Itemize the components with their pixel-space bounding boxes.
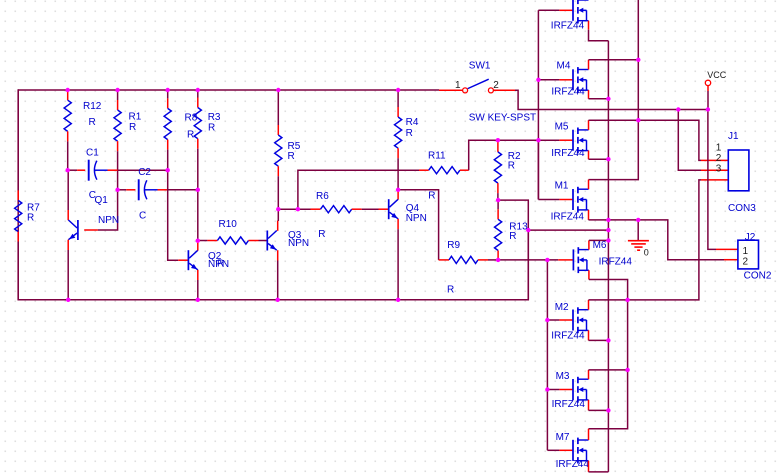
label M1 (555, 181, 569, 192)
label R5 value R (288, 151, 295, 162)
wire M7 source to bus (589, 471, 609, 473)
label CON2 (744, 270, 772, 281)
resistor R3 (194, 90, 201, 241)
wire M8 source to bus (589, 30, 609, 41)
svg-text:2: 2 (743, 256, 749, 267)
resistor R11 (429, 167, 460, 174)
pin C1 right red (108, 169, 118, 171)
svg-text:R: R (318, 229, 325, 240)
label R11 value R (428, 191, 435, 202)
wire Q3 emitter down (277, 261, 279, 300)
wire M1 gate (537, 140, 539, 199)
wire VCC down (707, 91, 709, 110)
pin M7 drain red (588, 429, 590, 440)
label C2 value C (139, 210, 146, 221)
pin R9 right red (478, 259, 488, 261)
wire Q3 collector up (277, 209, 279, 221)
svg-text:SW1: SW1 (469, 61, 491, 72)
label R3 (208, 112, 221, 123)
wire SW1 to VCC row (515, 90, 708, 109)
label M4 (557, 60, 571, 71)
pin R6 left red (311, 208, 321, 210)
label SW1 (469, 61, 491, 72)
wire M2 drain to J1 pin3 (589, 180, 702, 300)
svg-text:2: 2 (716, 153, 722, 164)
svg-text:R: R (187, 130, 194, 141)
wire SW1 pin2 red (493, 89, 515, 91)
svg-text:M6: M6 (593, 240, 607, 251)
pin M5 drain red (588, 120, 590, 130)
wire source bus x608 (607, 41, 609, 472)
wire M3 gate stub (547, 389, 573, 391)
label Q1 (95, 195, 109, 206)
svg-text:IRFZ44: IRFZ44 (551, 148, 585, 159)
svg-text:1: 1 (455, 80, 461, 91)
wire M6 drain to bus (589, 239, 609, 241)
pin M6 source red (588, 270, 590, 279)
resistor R2 (494, 140, 501, 200)
pin Q3 collector red (277, 221, 279, 231)
pin M1 drain red (588, 180, 590, 190)
wire M7 gate stub (547, 449, 573, 451)
resistor R8 (164, 90, 171, 170)
svg-text:NPN: NPN (98, 215, 119, 226)
wire R10 left (198, 240, 208, 242)
label M3 (556, 371, 570, 382)
mosfet M7 (573, 438, 589, 464)
svg-text:R: R (208, 123, 215, 134)
pin Q2 base red (178, 259, 188, 261)
pin Q4 base red (379, 208, 389, 210)
label Q3 NPN (288, 238, 309, 249)
label Q2 NPN (208, 259, 229, 270)
pin R10 left red (207, 240, 217, 242)
label R2 value R (508, 160, 515, 171)
pin M6 gate red (558, 259, 573, 261)
pin M3 drain red (588, 370, 590, 379)
wire M3 drain to bus x628 (589, 369, 628, 371)
pin Q1 emitter red (67, 240, 69, 250)
wire M6 source down bus x628 (589, 280, 628, 429)
label M7 (556, 432, 570, 443)
svg-text:M1: M1 (555, 181, 569, 192)
label M5 (555, 122, 569, 133)
wire Q1 base to R1 column (98, 190, 118, 230)
svg-text:SW KEY-SPST: SW KEY-SPST (469, 113, 536, 124)
label R1 value R (129, 122, 136, 133)
mosfet M3 (573, 377, 589, 403)
label R9 value R (447, 285, 454, 296)
label R10 (219, 219, 238, 230)
label M5 IRFZ44 (551, 148, 585, 159)
label Q1 NPN (98, 215, 119, 226)
svg-text:C: C (139, 210, 146, 221)
pin M3 source red (588, 400, 590, 411)
switch SW1 pin 2 number (493, 80, 499, 91)
pin M2 source red (588, 330, 590, 340)
svg-text:R6: R6 (316, 191, 329, 202)
wire M5 gate (538, 139, 573, 141)
svg-text:NPN: NPN (288, 238, 309, 249)
label R2 (508, 151, 521, 162)
label SW KEY-SPST (469, 113, 536, 124)
wire R10 right (259, 240, 268, 242)
svg-text:R: R (27, 213, 34, 224)
svg-text:IRFZ44: IRFZ44 (551, 211, 585, 222)
wire drain bus x638 (589, 0, 639, 180)
transistor Q1 (68, 220, 78, 240)
switch SW1 lever (468, 79, 489, 88)
svg-text:IRFZ44: IRFZ44 (551, 21, 585, 32)
svg-text:NPN: NPN (406, 213, 427, 224)
label R10 value R (217, 259, 224, 270)
switch SW1 pin 1 circle (463, 88, 468, 93)
label R11 (428, 150, 446, 161)
pin VCC red (707, 86, 709, 91)
label C1 (86, 148, 99, 159)
svg-text:R1: R1 (129, 112, 142, 123)
pin J2 pin1 red (716, 248, 738, 250)
mosfet M1 (573, 187, 589, 213)
pin M8 source red (588, 21, 590, 30)
pin M4 source red (588, 90, 590, 99)
wire M2 gate stub (547, 319, 573, 321)
label J1 (728, 131, 739, 142)
pin J1 pin3 red (701, 179, 728, 181)
resistor R9 (449, 256, 478, 263)
svg-text:R8: R8 (185, 113, 198, 124)
wire R6 left (278, 208, 310, 210)
wire M1 source to J2 pin2 (589, 220, 725, 260)
svg-text:R: R (428, 191, 435, 202)
svg-text:C2: C2 (138, 167, 151, 178)
svg-text:IRFZ44: IRFZ44 (556, 459, 590, 470)
label Q4 NPN (406, 213, 427, 224)
svg-text:J1: J1 (728, 131, 739, 142)
label R12 value R (89, 117, 96, 128)
svg-text:IRFZ44: IRFZ44 (552, 399, 586, 410)
wire Q2 emitter down (197, 280, 199, 300)
wire R9 right (488, 259, 498, 261)
switch SW1 pin 2 circle (488, 88, 493, 93)
connector J2 CON2 (738, 240, 759, 269)
pin M2 drain red (588, 300, 590, 310)
resistor R6 (321, 206, 352, 213)
wire M1 gate stub (538, 199, 573, 201)
pin C2 right red (158, 189, 169, 191)
wire C2 row left (118, 189, 127, 191)
label R1 (129, 112, 142, 123)
label Q2 (208, 251, 222, 262)
wire M3 source to bus (589, 409, 609, 411)
pin R11 left red (419, 169, 429, 171)
label J1 pin numbers (716, 143, 722, 175)
wire ground stem (637, 220, 639, 240)
wire top supply bus (18, 89, 439, 91)
label R7 (27, 203, 40, 214)
label R3 value R (208, 123, 215, 134)
wire M4 source to bus (589, 98, 609, 100)
transistor Q4 (389, 199, 399, 219)
label C2 (138, 167, 151, 178)
label J2 pin numbers (743, 246, 749, 267)
transistor Q3 (267, 231, 277, 251)
label R12 (83, 101, 102, 112)
svg-text:C1: C1 (86, 148, 99, 159)
pin Q2 emitter red (197, 270, 199, 280)
svg-text:R: R (447, 285, 454, 296)
svg-text:M7: M7 (556, 432, 570, 443)
label C1 value C (89, 190, 96, 201)
pin Q4 emitter red (397, 219, 399, 229)
svg-text:Q1: Q1 (95, 195, 109, 206)
svg-text:M5: M5 (555, 122, 569, 133)
wire Q1 collector (67, 170, 69, 210)
wire bottom bus (18, 230, 528, 300)
wire Q4 emitter down (397, 229, 399, 300)
label M1 IRFZ44 (551, 211, 585, 222)
svg-text:R: R (89, 117, 96, 128)
pin M1 source red (588, 210, 590, 220)
pin Q3 emitter red (277, 250, 279, 260)
switch SW1 pin 1 number (455, 80, 461, 91)
svg-text:VCC: VCC (707, 70, 727, 80)
wire M5 source to bus (589, 158, 609, 160)
wire Q1 emitter down (67, 250, 69, 300)
label CON3 (728, 203, 756, 214)
label M6 (593, 240, 607, 251)
wire J2 pin1 riser (708, 110, 716, 250)
resistor R5 (275, 90, 282, 209)
wire gate bus x547 (546, 260, 548, 450)
wire M5 drain to J1 pin1 (589, 120, 702, 160)
label R6 value R (318, 229, 325, 240)
pin Q2 collector red (197, 241, 199, 251)
label ground 0 (644, 248, 649, 258)
resistor R4 (395, 90, 402, 190)
pin R9 left red (439, 259, 449, 261)
svg-text:M4: M4 (557, 60, 571, 71)
capacitor C1 (89, 160, 108, 181)
resistor R1 (114, 90, 121, 190)
pin M4 drain red (588, 60, 590, 70)
pin R11 right red (460, 169, 469, 171)
wire M2 source to bus (589, 339, 609, 341)
resistor R13 (495, 200, 502, 260)
label Q4 (406, 203, 420, 214)
pin C2 left red (126, 189, 135, 191)
wire J1 pin2 riser (678, 110, 701, 171)
svg-text:R: R (129, 122, 136, 133)
label R4 value R (406, 128, 413, 139)
label M8 IRFZ44 (551, 21, 585, 32)
wire gate bus x538 (537, 10, 539, 199)
wire W3 from R6 junction to R11 (298, 170, 419, 209)
label Q3 (288, 230, 302, 241)
wire R13 junction to M6 gate (498, 259, 558, 261)
wire left rail (17, 89, 19, 300)
label R7 value R (27, 213, 34, 224)
mosfet M5 (573, 128, 589, 154)
power VCC circle (705, 80, 710, 85)
svg-text:R: R (509, 231, 516, 242)
wire C2 row right (168, 189, 198, 191)
svg-text:R: R (288, 151, 295, 162)
label M3 IRFZ44 (552, 399, 586, 410)
label R13 value R (509, 231, 516, 242)
pin R6 right red (352, 208, 362, 210)
svg-text:NPN: NPN (208, 259, 229, 270)
svg-text:R: R (508, 160, 515, 171)
resistor R12 (64, 90, 71, 170)
wire R2 top branch (498, 200, 528, 300)
label R6 (316, 191, 329, 202)
wire C1 row left (68, 169, 77, 171)
resistor R7 (15, 90, 22, 300)
wire Q4 collector branch to R9 (398, 190, 439, 260)
label J2 (745, 232, 756, 243)
label M2 IRFZ44 (551, 330, 585, 341)
mosfet M8 (top, IRFZ44) (573, 0, 589, 23)
wire R11 right up to R2 row (469, 140, 539, 170)
pin J1 pin1 red (701, 159, 728, 161)
label R8 (185, 113, 198, 124)
svg-text:M3: M3 (556, 371, 570, 382)
transistor Q2 (188, 250, 198, 270)
pin J2 pin2 red (724, 259, 738, 261)
wire R6 right (362, 208, 379, 210)
capacitor C2 (139, 179, 158, 200)
svg-text:J2: J2 (745, 232, 756, 243)
wire M4 gate (538, 79, 573, 81)
pin R10 right red (249, 240, 259, 242)
svg-text:R: R (406, 128, 413, 139)
connector J1 CON3 (728, 150, 749, 191)
svg-text:IRFZ44: IRFZ44 (551, 330, 585, 341)
label R8 value R (187, 130, 194, 141)
svg-text:R11: R11 (428, 150, 446, 161)
label M2 (555, 302, 569, 313)
wire top bus red segment to SW1 pin 1 (439, 89, 462, 91)
svg-text:R4: R4 (406, 117, 419, 128)
svg-text:2: 2 (493, 80, 499, 91)
svg-text:R3: R3 (208, 112, 221, 123)
pin C1 left red (77, 169, 85, 171)
pin Q4 collector red (397, 190, 399, 200)
pin M7 source red (588, 461, 590, 472)
pin M6 drain red (588, 240, 590, 249)
svg-text:CON2: CON2 (744, 270, 772, 281)
resistor R10 (217, 237, 248, 244)
label M7 IRFZ44 (556, 459, 590, 470)
mosfet M2 (573, 307, 589, 333)
svg-text:CON3: CON3 (728, 203, 756, 214)
label M6 IRFZ44 (599, 257, 633, 268)
ground symbol 0 (628, 241, 649, 251)
wire M8 gate (538, 9, 573, 11)
pin J1 pin2 red (701, 169, 728, 171)
label R4 (406, 117, 419, 128)
wire M4 drain to bus (589, 59, 639, 61)
pin Q1 collector red (67, 210, 69, 220)
svg-text:3: 3 (716, 163, 722, 174)
mosfet M6 (573, 247, 589, 273)
svg-text:IRFZ44: IRFZ44 (599, 257, 633, 268)
svg-text:M2: M2 (555, 302, 569, 313)
svg-text:R9: R9 (447, 240, 460, 251)
svg-text:R10: R10 (219, 219, 238, 230)
wire C1 row right (118, 169, 168, 171)
svg-text:0: 0 (644, 248, 649, 258)
wire Q2 base from R8 column (168, 170, 179, 260)
label M4 IRFZ44 (551, 87, 585, 98)
svg-text:IRFZ44: IRFZ44 (551, 87, 585, 98)
wire R13 branch to bus (528, 229, 608, 231)
mosfet M4 (573, 67, 589, 93)
pin M5 source red (588, 151, 590, 160)
pin Q1 base red (84, 229, 98, 231)
label R9 (447, 240, 460, 251)
label R13 (509, 221, 528, 232)
label VCC (707, 70, 727, 80)
svg-text:R12: R12 (83, 101, 102, 112)
label R5 (288, 141, 301, 152)
